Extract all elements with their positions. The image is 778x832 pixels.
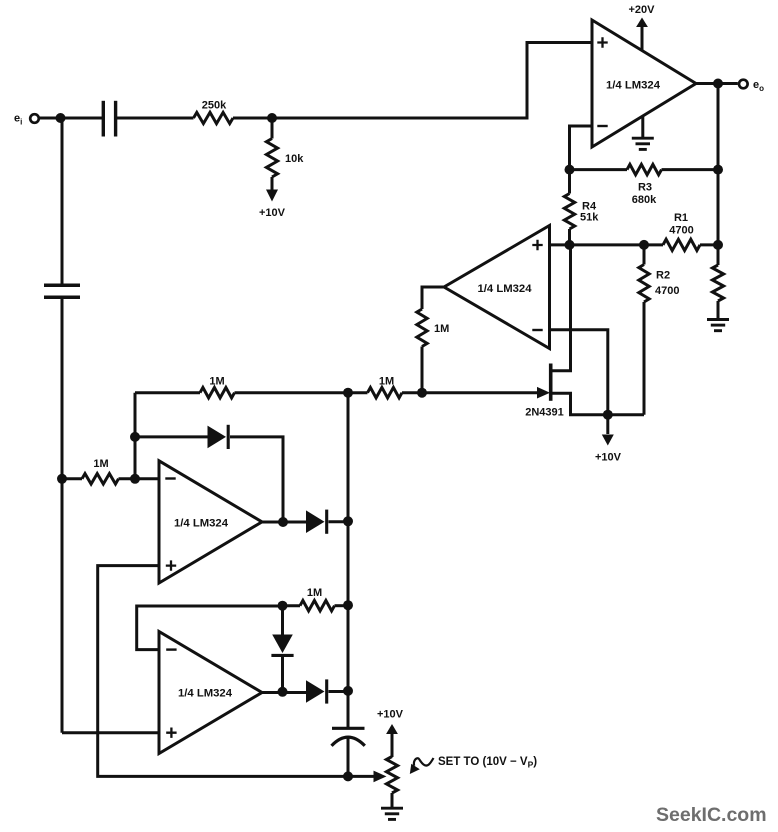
node diode D1 branch junction [130, 432, 140, 442]
wire input to capacitor [40, 117, 103, 120]
op-amp U2 1/4 LM324 [444, 226, 550, 349]
wiper arrow [374, 771, 387, 783]
svg-text:1M: 1M [209, 376, 224, 388]
wire R2 bottom lead [643, 302, 646, 415]
svg-text:1/4 LM324: 1/4 LM324 [178, 688, 233, 700]
ground below potentiometer [381, 807, 403, 810]
node at 10k tap [267, 113, 277, 123]
node R2 top junction [639, 240, 649, 250]
wire 1M to gate arrow [402, 391, 538, 394]
op-amp U1 1/4 LM324 [592, 20, 696, 147]
wire U3 output [262, 521, 306, 524]
diode D2 [306, 510, 325, 533]
node U4 - feedback junction [278, 601, 288, 611]
wire U2 output to 1M [422, 287, 444, 309]
potentiometer R5 [386, 757, 397, 808]
svg-text:250k: 250k [202, 100, 227, 112]
op-amp U3 1/4 LM324 [159, 461, 262, 583]
wire U4 - input loop [137, 606, 283, 650]
ground below R1 [707, 318, 729, 321]
wire U2 - input to source node [550, 330, 608, 415]
wire rail R3 node to R1 node [717, 170, 720, 245]
wire 250k to op-amp U1 + input [233, 43, 592, 119]
svg-text:R3: R3 [638, 182, 652, 194]
node R3 right junction [713, 165, 723, 175]
ground at U1 [632, 117, 654, 150]
svg-text:1M: 1M [379, 376, 394, 388]
resistor 1M (U4 feedback) [283, 587, 349, 611]
resistor 10k [266, 118, 304, 177]
op-amp U4 1/4 LM324 [159, 632, 262, 754]
wire U4 + input from e_i line [62, 731, 159, 734]
svg-text:1M: 1M [434, 323, 449, 335]
svg-text:1M: 1M [93, 458, 108, 470]
svg-text:4700: 4700 [655, 285, 679, 297]
svg-text:+10V: +10V [595, 452, 622, 464]
gate arrow of Q1 [537, 387, 550, 399]
svg-text:SeekIC.com: SeekIC.com [656, 804, 767, 826]
wire U3 + input [98, 566, 348, 777]
node D2 rail junction [343, 516, 353, 526]
diode D1 [208, 426, 227, 449]
resistor 1M (U2 output) [417, 309, 449, 393]
wire feedback vertical x=135 [134, 393, 137, 479]
output terminal e_o [739, 79, 764, 93]
annotation arrow squiggle [410, 758, 434, 774]
node D4 rail junction [343, 686, 353, 696]
node U3 - input junction [130, 474, 140, 484]
wire U1 output [696, 82, 738, 85]
resistor 1M (right on gate line) [368, 376, 403, 398]
node A junction on e_i line [57, 474, 67, 484]
node R3 left junction [565, 165, 575, 175]
wire U4 output [262, 691, 306, 694]
svg-text:R2: R2 [656, 270, 670, 282]
svg-text:SET TO (10V − VP): SET TO (10V − VP) [438, 756, 537, 770]
wire e_i line below capacitor [61, 297, 64, 732]
svg-text:+20V: +20V [629, 4, 656, 16]
+10V supply below 10k [259, 177, 286, 219]
svg-text:1/4 LM324: 1/4 LM324 [174, 518, 229, 530]
wire D1 to U3 output node [230, 437, 283, 522]
wire D2 to rail [329, 520, 349, 523]
transistor Q1 2N4391 JFET [525, 245, 644, 419]
diode D4 [306, 680, 325, 703]
wire U1 - input to R3 node [570, 126, 593, 170]
input terminal e_i [14, 113, 39, 127]
svg-text:1/4 LM324: 1/4 LM324 [606, 80, 661, 92]
node rail bottom junction [343, 771, 353, 781]
svg-text:10k: 10k [285, 153, 304, 165]
node rail top junction [343, 388, 353, 398]
diode D3 (vertical) [271, 606, 293, 692]
svg-text:+10V: +10V [377, 709, 404, 721]
svg-text:4700: 4700 [669, 225, 693, 237]
node U4 output junction [278, 687, 288, 697]
wire left rail below capacitor [347, 738, 350, 777]
wire to diode D1 [135, 435, 208, 438]
svg-text:R1: R1 [674, 212, 688, 224]
wire D4 to rail [329, 690, 349, 693]
svg-text:1/4 LM324: 1/4 LM324 [477, 283, 532, 295]
svg-text:2N4391: 2N4391 [525, 407, 564, 419]
resistor R1 4700 [663, 212, 718, 251]
resistor 1M (node A to U3 -) [62, 458, 159, 484]
resistor 1M (left on gate line) [200, 376, 235, 398]
node R1 right junction [713, 240, 723, 250]
wire + node line (op2 + input to output rail) [550, 243, 664, 246]
resistor 250k [194, 100, 234, 124]
wire output rail down [717, 84, 720, 170]
capacitor C3 (rail, curved plate) [332, 728, 365, 746]
node R4 bottom junction [565, 240, 575, 250]
resistor R4 51k [564, 170, 599, 245]
node source junction [603, 410, 613, 420]
svg-text:1M: 1M [307, 587, 322, 599]
+10V supply at potentiometer [377, 709, 404, 758]
+10V supply at Q1 source [595, 415, 622, 464]
node input junction [56, 113, 66, 123]
svg-text:680k: 680k [632, 194, 657, 206]
node U3 output junction [278, 517, 288, 527]
svg-text:+10V: +10V [259, 207, 286, 219]
+20V supply at U1 [629, 4, 656, 50]
wire e_i vertical line [61, 118, 64, 285]
resistor to ground (below R1) [712, 245, 723, 318]
wire to rail junction [235, 391, 368, 394]
wire left rail vertical [347, 393, 350, 728]
resistor R3 680k [570, 164, 719, 206]
resistor R2 4700 [639, 245, 680, 302]
wire bottom to potentiometer wiper [348, 775, 374, 778]
node gate junction [417, 388, 427, 398]
capacitor C2 (in e_i line) [44, 285, 80, 297]
wire gate line left segment [135, 391, 200, 394]
node 1M rail junction [343, 600, 353, 610]
svg-text:51k: 51k [580, 212, 599, 224]
wire capacitor to resistor 250k [116, 117, 194, 120]
node output junction [713, 79, 723, 89]
capacitor C1 (series input) [103, 101, 115, 137]
